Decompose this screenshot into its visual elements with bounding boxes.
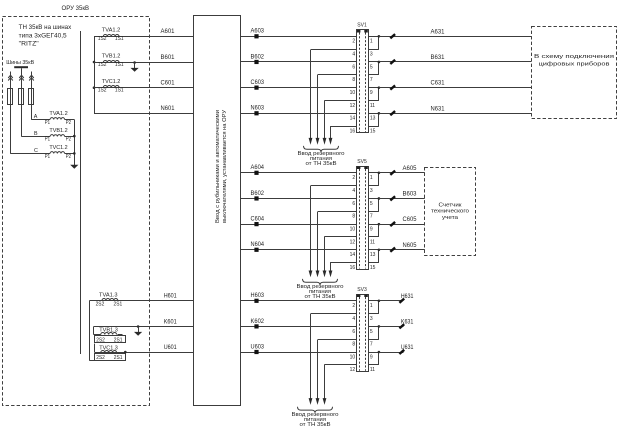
svg-text:1S1: 1S1 (115, 62, 124, 68)
wire TVB1.2 P2 to earth rail (65, 136, 75, 138)
open-delta rail bottom (89, 360, 125, 362)
svg-text:5: 5 (370, 201, 373, 207)
svg-text:4: 4 (352, 188, 355, 194)
wire SV5 pin 4 to reserve feed (311, 185, 357, 187)
svg-text:"RITZ": "RITZ" (19, 41, 39, 47)
wire H603 (241, 300, 357, 302)
svg-text:2S1: 2S1 (114, 355, 123, 361)
svg-text:14: 14 (350, 252, 356, 258)
svg-text:A631: A631 (431, 29, 446, 35)
svg-text:4: 4 (352, 52, 355, 58)
svg-text:от ТН 35кВ: от ТН 35кВ (306, 161, 337, 167)
svg-text:1: 1 (370, 39, 373, 45)
svg-text:TVB1.2: TVB1.2 (102, 53, 121, 59)
wire B602 (241, 61, 357, 63)
svg-text:C631: C631 (431, 81, 446, 87)
svg-text:11: 11 (370, 367, 375, 373)
svg-text:16: 16 (350, 265, 356, 271)
cable marker H603 (254, 299, 258, 303)
svg-text:B631: B631 (431, 55, 446, 61)
svg-text:K601: K601 (164, 319, 178, 325)
wire fuse to primary winding A (31, 104, 33, 119)
svg-text:16: 16 (350, 129, 356, 135)
cable marker C603 (254, 86, 258, 90)
jumper SV3 pin 5 to pin 7 (368, 326, 379, 328)
svg-text:12: 12 (350, 367, 356, 373)
jumper SV1 pin 5 to pin 7 (368, 61, 379, 63)
svg-text:TVB1.3: TVB1.3 (99, 327, 118, 333)
jumper SV1 pin 9 to pin 11 (368, 87, 379, 89)
cable marker B602 (254, 196, 258, 200)
svg-text:P2: P2 (66, 120, 71, 126)
reserve feed arrow 2 SV1 (317, 75, 319, 140)
reserve feed brace SV1 (304, 146, 339, 152)
svg-text:TVB1.2: TVB1.2 (49, 128, 67, 134)
wire SV3 pin 4 to reserve feed (311, 313, 357, 315)
fuse FB 35kV (21, 89, 23, 104)
wire C605 (379, 224, 425, 226)
wire SV1 pin 12 to reserve feed (324, 100, 356, 102)
wire fuse to primary winding B (21, 104, 23, 136)
reserve feed arrow 4 SV1 (330, 127, 332, 140)
open-delta rail (89, 301, 91, 361)
junction secondary rail B601 (93, 61, 96, 64)
svg-text:12: 12 (350, 239, 356, 245)
reserve feed arrow 1 SV3 (310, 314, 312, 400)
svg-text:A601: A601 (161, 29, 176, 35)
reserve feed brace SV5 (303, 279, 338, 285)
junction secondary rail C601 (93, 86, 96, 89)
wire C631 (379, 87, 532, 89)
svg-text:SV5: SV5 (357, 159, 367, 165)
svg-text:H601: H601 (164, 294, 178, 300)
svg-text:2S1: 2S1 (114, 337, 123, 343)
fuse FC 35kV (10, 89, 12, 104)
svg-text:H631: H631 (401, 294, 414, 300)
wire K602 (241, 326, 357, 328)
jumper SV3 pin 1 to pin 3 (368, 300, 379, 302)
svg-text:5: 5 (370, 329, 373, 335)
ground primary windings (70, 165, 78, 169)
svg-text:типа 3хGЕГ40,5: типа 3хGЕГ40,5 (19, 33, 68, 39)
cable marker C604 (254, 222, 258, 226)
cable marker C631 (390, 85, 395, 89)
svg-text:P2: P2 (66, 137, 71, 143)
svg-text:P1: P1 (45, 137, 50, 143)
svg-text:11: 11 (370, 103, 375, 109)
wire SV5 pin 16 to reserve feed (330, 262, 356, 264)
svg-text:N601: N601 (161, 106, 176, 112)
secondary winding TVC1.2 (103, 86, 119, 88)
cable marker H631 (399, 299, 404, 303)
wire U601 (94, 352, 193, 354)
jumper SV5 pin 9 to pin 11 (368, 224, 379, 226)
svg-text:P1: P1 (45, 154, 50, 160)
reserve feed arrow 3 SV3 (324, 365, 326, 400)
svg-text:15: 15 (370, 265, 376, 271)
svg-text:B601: B601 (161, 55, 176, 61)
cable marker A605 (390, 171, 395, 175)
wire N601 (94, 113, 194, 115)
svg-text:B: B (34, 131, 38, 137)
svg-text:C603: C603 (251, 80, 265, 86)
wire A604 (241, 172, 357, 174)
cable marker C605 (390, 222, 395, 226)
svg-text:1S2: 1S2 (98, 62, 107, 68)
svg-text:2S2: 2S2 (96, 302, 105, 308)
svg-text:выключателями, устанавливается: выключателями, устанавливается на ОРУ (222, 110, 228, 223)
wire B602 (241, 198, 357, 200)
wire SV3 pin 8 to reserve feed (318, 339, 357, 341)
wire B631 (379, 61, 532, 63)
svg-text:ОРУ 35кВ: ОРУ 35кВ (62, 5, 90, 12)
aux winding TVA1.3 (102, 299, 118, 301)
svg-text:1S1: 1S1 (115, 88, 124, 94)
wire C604 (241, 224, 357, 226)
svg-text:2S1: 2S1 (114, 302, 123, 308)
bus tap arrow phase C (8, 75, 13, 78)
connector SV1 body (357, 30, 369, 133)
svg-text:10: 10 (350, 90, 356, 96)
svg-text:N631: N631 (431, 106, 446, 112)
svg-text:6: 6 (352, 64, 355, 70)
wire U603 (241, 352, 357, 354)
svg-text:TVA1.3: TVA1.3 (99, 292, 118, 298)
cable marker B603 (390, 196, 395, 200)
junction TVC1.3 U601 (124, 351, 127, 354)
wire SV1 pin 8 to reserve feed (318, 74, 357, 76)
svg-text:2: 2 (352, 39, 355, 45)
svg-text:Шины 35кВ: Шины 35кВ (6, 60, 34, 66)
connector SV1 contact lines (359, 33, 361, 133)
wire N631 (379, 113, 532, 115)
svg-text:C: C (34, 148, 38, 154)
dashed box Счетчик технического учета (425, 168, 476, 256)
svg-text:B602: B602 (251, 54, 265, 60)
svg-text:SV3: SV3 (357, 287, 367, 293)
panel divider line (80, 31, 82, 354)
svg-text:В схему подключения: В схему подключения (534, 54, 614, 60)
cable marker B631 (390, 60, 395, 64)
wire N604 (241, 249, 357, 251)
bus tap arrow phase A (29, 75, 34, 78)
wire SV5 pin 12 to reserve feed (324, 236, 356, 238)
svg-text:8: 8 (352, 342, 355, 348)
reserve feed arrow 1 SV1 (310, 50, 312, 140)
wire TVA1.2 P2 to earth rail (65, 119, 75, 121)
jumper SV5 pin 1 to pin 3 (368, 172, 379, 174)
wire N605 (379, 249, 425, 251)
svg-text:13: 13 (370, 252, 376, 258)
wire A605 (379, 172, 425, 174)
junction primary rail B (73, 135, 76, 138)
svg-text:3: 3 (370, 316, 373, 322)
connector SV3 body (357, 295, 369, 372)
svg-text:TVA1.2: TVA1.2 (49, 111, 67, 117)
primary winding TVB1.2 (50, 135, 65, 137)
terminal block TVB1.3 (95, 336, 126, 343)
svg-text:K631: K631 (401, 319, 414, 325)
wire N603 (241, 113, 357, 115)
svg-text:C601: C601 (161, 81, 176, 87)
cable marker U631 (399, 350, 404, 354)
svg-text:3: 3 (370, 52, 373, 58)
svg-text:от ТН 35кВ: от ТН 35кВ (305, 294, 336, 300)
aux winding TVB1.3 (93, 326, 95, 334)
jumper SV1 pin 13 to pin 15 (368, 113, 379, 115)
cable marker N605 (390, 248, 395, 252)
wire H601 (89, 300, 193, 302)
svg-text:учета: учета (442, 215, 458, 221)
primary winding TVA1.2 (50, 118, 65, 120)
wire K631 (379, 326, 404, 328)
reserve feed arrow 3 SV5 (324, 237, 326, 272)
connector SV1 key tabs (357, 30, 361, 33)
svg-text:B602: B602 (251, 191, 265, 197)
cable marker N604 (254, 248, 258, 252)
wire fuse to primary winding C (10, 104, 12, 153)
svg-text:7: 7 (370, 214, 373, 220)
cable marker N631 (390, 111, 395, 115)
svg-text:цифровых приборов: цифровых приборов (539, 61, 610, 67)
svg-text:TVC1.2: TVC1.2 (49, 145, 67, 151)
reserve feed brace SV3 (298, 407, 333, 413)
neutral rail secondary (94, 36, 96, 113)
svg-text:C605: C605 (403, 217, 418, 223)
svg-text:1S2: 1S2 (98, 88, 107, 94)
svg-text:15: 15 (370, 129, 376, 135)
svg-text:7: 7 (370, 342, 373, 348)
connector SV5 body (357, 167, 369, 270)
svg-text:9: 9 (370, 90, 373, 96)
ground wire B601 (133, 61, 136, 64)
wire K601 (94, 326, 194, 328)
ground wire K601 (137, 325, 140, 328)
svg-text:6: 6 (352, 201, 355, 207)
junction primary rail C (73, 152, 76, 155)
svg-text:Ввод с рубильниками и автомати: Ввод с рубильниками и автоматическими (215, 110, 221, 223)
wire B603 (379, 198, 425, 200)
cable marker A631 (390, 34, 395, 38)
earth rail primary (74, 120, 76, 166)
reserve feed arrow 1 SV5 (310, 186, 312, 272)
wire SV3 pin 12 to reserve feed (324, 364, 356, 366)
cable marker A603 (254, 34, 258, 38)
svg-text:от ТН 35кВ: от ТН 35кВ (300, 422, 331, 428)
wire C601 (94, 87, 194, 89)
svg-text:SV1: SV1 (357, 23, 367, 29)
busbar 35kV (14, 66, 28, 68)
wire A631 (379, 36, 532, 38)
cable marker N603 (254, 111, 258, 115)
svg-text:ТН 35кВ на шинах: ТН 35кВ на шинах (19, 25, 71, 31)
wire U631 (379, 352, 404, 354)
jumper SV5 pin 5 to pin 7 (368, 198, 379, 200)
svg-text:9: 9 (370, 354, 373, 360)
wire SV1 pin 4 to reserve feed (311, 49, 357, 51)
svg-text:2S2: 2S2 (96, 355, 105, 361)
svg-text:1S2: 1S2 (98, 36, 107, 42)
svg-text:H603: H603 (251, 293, 265, 299)
reserve feed arrow 2 SV3 (317, 340, 319, 400)
svg-text:U631: U631 (401, 345, 414, 351)
svg-text:A604: A604 (251, 165, 265, 171)
svg-text:5: 5 (370, 64, 373, 70)
connector SV5 key tabs (357, 166, 361, 169)
svg-text:2: 2 (352, 175, 355, 181)
wire TVC1.2 P2 to earth rail (65, 153, 75, 155)
svg-text:TVC1.2: TVC1.2 (102, 79, 121, 85)
svg-text:технического: технического (431, 209, 469, 215)
reserve feed arrow 2 SV5 (317, 212, 319, 272)
connector SV5 contact lines (359, 169, 361, 269)
svg-text:10: 10 (350, 354, 356, 360)
svg-text:1S1: 1S1 (115, 36, 124, 42)
svg-text:A603: A603 (251, 29, 265, 35)
cabinet vertical note (215, 110, 228, 223)
svg-text:A605: A605 (403, 166, 418, 172)
reserve feed arrow 3 SV1 (324, 101, 326, 140)
svg-text:4: 4 (352, 316, 355, 322)
bus tap arrow phase B (19, 75, 24, 78)
connector SV3 key tabs (357, 294, 361, 297)
svg-text:11: 11 (370, 239, 375, 245)
svg-text:N603: N603 (251, 106, 265, 112)
fuse FA 35kV (31, 89, 33, 104)
svg-text:1: 1 (370, 175, 373, 181)
cable marker A604 (254, 171, 258, 175)
svg-text:6: 6 (352, 329, 355, 335)
svg-text:7: 7 (370, 77, 373, 83)
svg-text:N604: N604 (251, 242, 265, 248)
svg-text:P1: P1 (45, 120, 50, 126)
dashed enclosure ОРУ 35кВ (3, 17, 150, 406)
reserve feed arrow 4 SV5 (330, 263, 332, 272)
aux winding TVC1.3 (94, 344, 96, 353)
wire H631 (379, 300, 404, 302)
terminal block TVC1.3 (95, 354, 126, 361)
svg-text:1: 1 (370, 303, 373, 309)
wire A603 (241, 36, 357, 38)
secondary winding TVA1.2 (103, 35, 119, 37)
svg-text:A: A (34, 114, 38, 120)
svg-text:TVC1.3: TVC1.3 (99, 346, 118, 352)
svg-text:2S2: 2S2 (96, 337, 105, 343)
cable marker B602 (254, 60, 258, 64)
secondary winding TVB1.2 (103, 61, 119, 63)
svg-text:12: 12 (350, 103, 356, 109)
wire SV1 pin 16 to reserve feed (330, 126, 356, 128)
svg-text:N605: N605 (403, 243, 418, 249)
svg-text:U601: U601 (164, 345, 178, 351)
svg-text:2: 2 (352, 303, 355, 309)
wire SV5 pin 8 to reserve feed (318, 211, 357, 213)
svg-text:B603: B603 (403, 191, 418, 197)
wire B601 (94, 62, 194, 64)
svg-text:13: 13 (370, 116, 376, 122)
svg-text:U603: U603 (251, 344, 265, 350)
connector SV3 contact lines (359, 297, 361, 371)
svg-text:8: 8 (352, 77, 355, 83)
svg-text:TVA1.2: TVA1.2 (102, 28, 121, 34)
svg-text:9: 9 (370, 227, 373, 233)
cable marker U603 (254, 350, 258, 354)
svg-text:10: 10 (350, 227, 356, 233)
dashed box В схему подключения цифровых приборов (532, 27, 617, 119)
cable marker K602 (254, 324, 258, 328)
wire A601 (94, 36, 194, 38)
svg-text:3: 3 (370, 188, 373, 194)
svg-text:P2: P2 (66, 154, 71, 160)
primary winding TVC1.2 (50, 152, 65, 154)
jumper SV1 pin 1 to pin 3 (368, 36, 379, 38)
wire C603 (241, 87, 357, 89)
jumper SV5 pin 13 to pin 15 (368, 249, 379, 251)
svg-text:K602: K602 (251, 319, 265, 325)
cabinet Ввод с рубильниками (box) (194, 16, 241, 406)
cable marker K631 (399, 324, 404, 328)
svg-text:C604: C604 (251, 217, 265, 223)
jumper SV3 pin 9 to pin 11 (368, 352, 379, 354)
svg-text:8: 8 (352, 214, 355, 220)
svg-text:14: 14 (350, 116, 356, 122)
